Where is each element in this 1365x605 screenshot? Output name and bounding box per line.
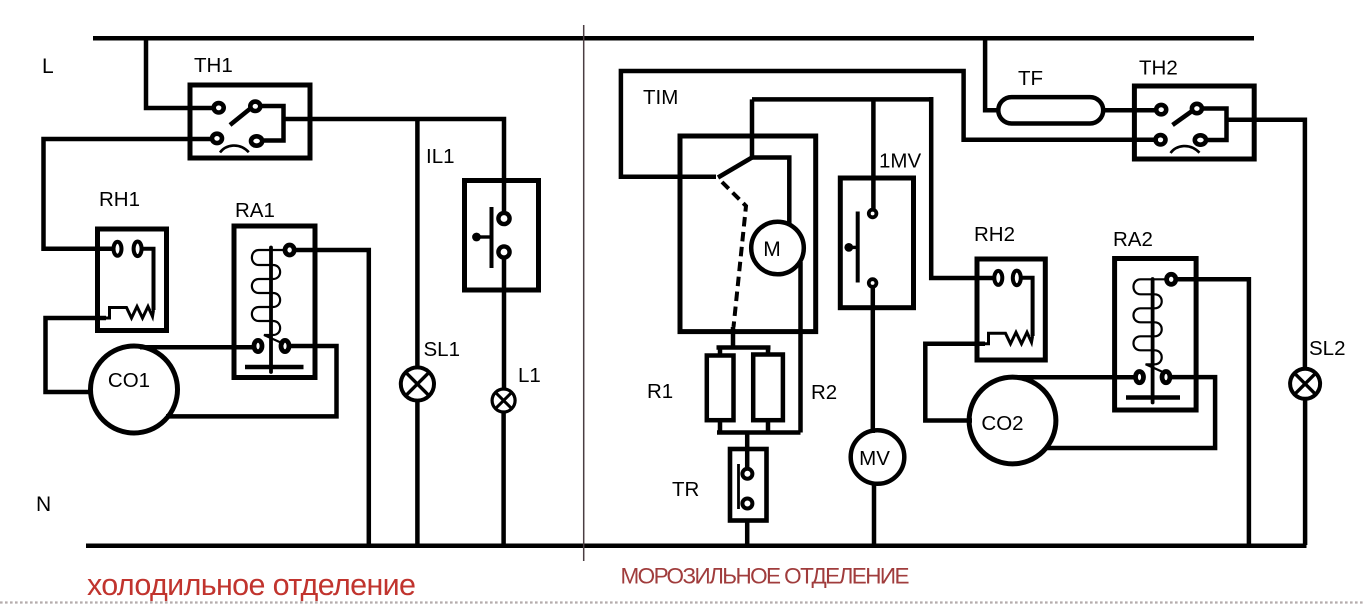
wire N rail [86, 544, 1307, 549]
wire SL2 to N rail [1303, 400, 1308, 545]
wire bus to 1MV [871, 99, 876, 210]
wire TIM top bus [752, 97, 931, 102]
wire L1 to N rail [501, 413, 506, 545]
wire M to resistor bar [798, 262, 803, 433]
relay RA2 [1115, 259, 1197, 411]
svg-text:RH1: RH1 [99, 188, 140, 211]
wire RA2 to N rail [1175, 279, 1249, 545]
wire RA1 to N rail [294, 250, 369, 545]
svg-text:TF: TF [1018, 67, 1043, 90]
resistor R2 [753, 355, 783, 421]
lamp-switch IL1 [465, 181, 539, 291]
wire junction to SL1 [415, 119, 420, 367]
svg-text:TH2: TH2 [1139, 57, 1178, 80]
wire TH1 to RH1 [44, 139, 213, 249]
svg-text:МОРОЗИЛЬНОЕ ОТДЕЛЕНИЕ: МОРОЗИЛЬНОЕ ОТДЕЛЕНИЕ [621, 564, 910, 589]
bottom dotted border [0, 601, 1365, 603]
svg-text:1MV: 1MV [879, 150, 921, 173]
wire R1 R2 bottom bar [717, 420, 801, 469]
wire TH2 to TIM feed [621, 71, 1158, 177]
wire RH1 to CO1 [46, 318, 107, 392]
lamp SL1 [401, 367, 434, 400]
svg-text:TR: TR [672, 478, 699, 501]
compressor CO2 [969, 377, 1056, 464]
lamp L1 [492, 389, 515, 412]
svg-text:M: M [763, 238, 781, 261]
svg-text:холодильное отделение: холодильное отделение [87, 568, 416, 602]
wire L rail to TF [985, 36, 1000, 110]
svg-text:TIM: TIM [643, 86, 678, 109]
lamp SL2 [1290, 369, 1320, 399]
svg-text:RA1: RA1 [235, 199, 275, 222]
resistor R1 [707, 356, 734, 421]
svg-text:CO1: CO1 [108, 369, 150, 392]
wire CO2 to RA2 left [1011, 375, 1135, 380]
fuse TF [998, 97, 1103, 123]
svg-text:IL1: IL1 [426, 145, 455, 168]
svg-text:SL1: SL1 [424, 338, 460, 361]
wire CO1 to RA1 left [140, 345, 253, 350]
thermostat TH2 [1134, 86, 1254, 159]
wire bus to RH2 [931, 97, 995, 278]
compressor CO1 [91, 346, 178, 433]
wire L rail to TH1 [146, 36, 215, 108]
thermostat TH1 [190, 85, 310, 158]
wire CO2 to RA2 right [1045, 377, 1215, 448]
svg-text:MV: MV [859, 447, 890, 470]
svg-text:L1: L1 [518, 364, 541, 387]
fan motor MV [851, 430, 905, 484]
wire TH2 to SL2 [1227, 120, 1305, 368]
svg-text:TH1: TH1 [194, 54, 233, 77]
wire CO1 to RA1 right [166, 346, 337, 416]
svg-text:R2: R2 [811, 381, 837, 404]
svg-text:CO2: CO2 [981, 412, 1023, 435]
svg-text:RA2: RA2 [1113, 228, 1153, 251]
divider line [583, 25, 585, 561]
wire SL1 to N rail [415, 401, 420, 545]
thermal relay TR [730, 449, 767, 521]
svg-text:SL2: SL2 [1309, 337, 1345, 360]
svg-text:RH2: RH2 [974, 223, 1015, 246]
wire IL1 to L1 [502, 257, 507, 389]
wire TR to N rail [745, 521, 750, 546]
motor M [751, 222, 804, 275]
wire 1MV to MV [871, 288, 876, 433]
wire TH1 output to IL1 [284, 119, 505, 214]
relay RA1 [234, 226, 315, 378]
timer TIM [680, 99, 816, 331]
svg-text:R1: R1 [647, 380, 673, 403]
switch 1MV [840, 178, 913, 308]
wire RH2 to CO2 [925, 344, 985, 421]
relay RH2 [977, 259, 1045, 360]
wire TIM arm to R1 R2 [717, 327, 771, 357]
wire MV to N rail [872, 483, 877, 545]
svg-text:N: N [36, 493, 51, 516]
relay RH1 [98, 229, 167, 331]
wire L rail [93, 36, 1254, 41]
svg-text:L: L [42, 55, 54, 78]
wire TF to TH2 [1103, 108, 1157, 113]
